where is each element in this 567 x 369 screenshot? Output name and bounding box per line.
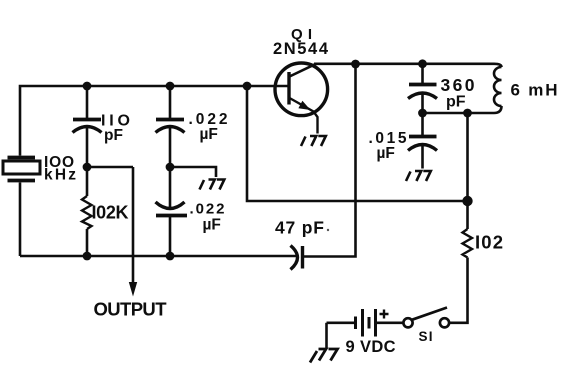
svg-text:I02K: I02K	[92, 203, 129, 223]
svg-text:2N544: 2N544	[273, 40, 329, 58]
svg-text:6 mH: 6 mH	[511, 81, 558, 100]
svg-text:SI: SI	[419, 329, 433, 344]
svg-text:47 pF: 47 pF	[275, 218, 324, 238]
svg-text:pF: pF	[104, 127, 123, 144]
svg-text:OUTPUT: OUTPUT	[94, 299, 168, 320]
svg-text:kHz: kHz	[44, 167, 76, 184]
svg-text:µF: µF	[203, 217, 221, 234]
svg-text:µF: µF	[377, 145, 395, 162]
svg-text:.022: .022	[190, 201, 225, 218]
svg-text:pF: pF	[446, 94, 466, 111]
svg-text:I02: I02	[475, 232, 503, 253]
svg-text:µF: µF	[200, 126, 218, 143]
svg-text:9 VDC: 9 VDC	[346, 338, 396, 356]
svg-text:360: 360	[441, 75, 475, 95]
